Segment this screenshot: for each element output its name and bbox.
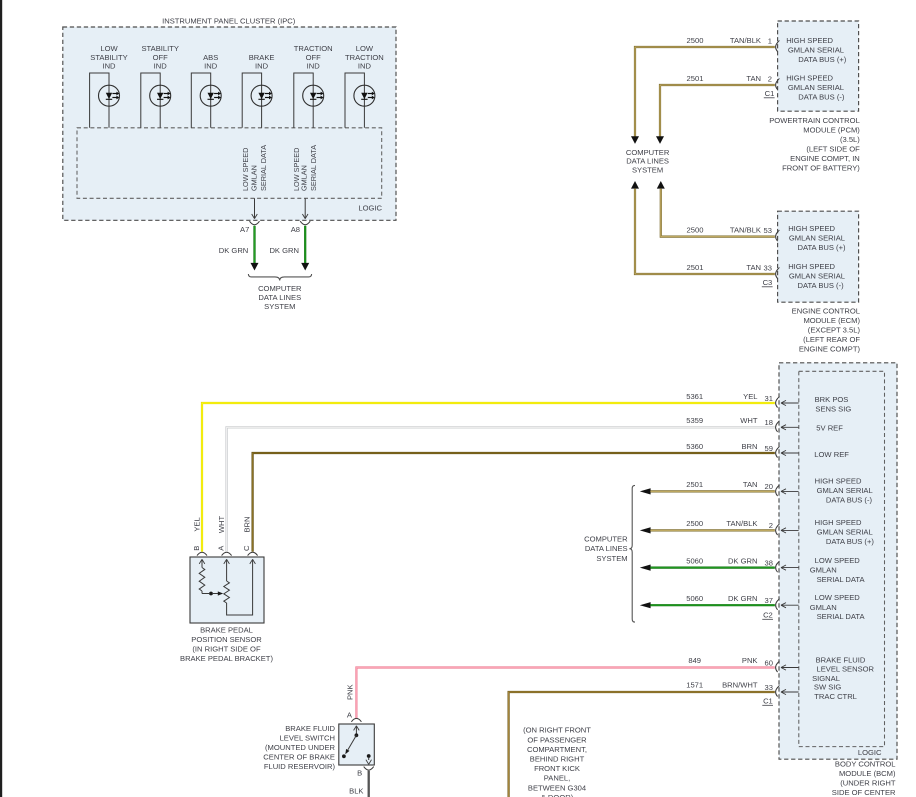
svg-text:COMPUTER: COMPUTER [258, 284, 302, 293]
switch contact from pin A [354, 726, 360, 737]
svg-text:C2: C2 [763, 610, 773, 619]
color label PNK (vertical at switch) [345, 684, 354, 700]
color label BRN (at BCM) [741, 442, 757, 451]
svg-text:IND: IND [358, 61, 372, 70]
wire 2501 TAN: PCM pin 2 to computer data lines [656, 85, 775, 144]
BCM pin 38 label LOW SPEED GMLAN SERIAL DATA [810, 556, 866, 584]
svg-text:5060: 5060 [686, 594, 703, 603]
svg-text:LOW SPEED: LOW SPEED [815, 593, 861, 602]
svg-text:20: 20 [765, 482, 773, 491]
svg-text:DATA LINES: DATA LINES [626, 157, 669, 166]
connector label C3 (ECM) [762, 278, 773, 287]
sensor internal wire pin B with arrow [199, 559, 205, 567]
svg-text:LOGIC: LOGIC [358, 203, 382, 212]
wire 5361 YEL: brake pedal position sensor pin B to BCM pin 31 [202, 403, 775, 552]
module box BCM BODY CONTROL MODULE [779, 363, 897, 759]
svg-text:LEVEL SWITCH: LEVEL SWITCH [280, 733, 335, 742]
svg-text:PNK: PNK [345, 684, 354, 700]
svg-text:CENTER OF BRAKE: CENTER OF BRAKE [263, 753, 335, 762]
sensor label [180, 626, 273, 664]
wire 5359 WHT: brake pedal position sensor pin A to BCM pin 18 [227, 427, 775, 551]
ECM pin 53 label HIGH SPEED GMLAN SERIAL DATA BUS (+) [788, 224, 846, 252]
svg-text:SYSTEM: SYSTEM [632, 166, 663, 175]
circuit number 2500 (PCM) [687, 36, 704, 45]
svg-text:60: 60 [765, 658, 773, 667]
circuit number 5361 [686, 392, 703, 401]
svg-text:TAN/BLK: TAN/BLK [730, 36, 761, 45]
circuit number 2501 (PCM) [687, 74, 704, 83]
svg-text:COMPARTMENT,: COMPARTMENT, [527, 745, 587, 754]
svg-text:DATA BUS (+): DATA BUS (+) [798, 243, 847, 252]
svg-text:YEL: YEL [743, 392, 757, 401]
svg-text:5361: 5361 [686, 392, 703, 401]
wire 2501 TAN: computer data lines to BCM pin 20 [640, 488, 775, 494]
color label WHT (vertical at sensor) [217, 515, 226, 533]
component box BRAKE FLUID LEVEL SWITCH [339, 724, 375, 765]
svg-text:FLUID RESERVOIR): FLUID RESERVOIR) [264, 762, 336, 771]
circuit number 849 [688, 656, 701, 665]
svg-text:POWERTRAIN CONTROL: POWERTRAIN CONTROL [769, 116, 860, 125]
color label DK GRN (A7) [219, 246, 249, 255]
svg-text:37: 37 [765, 596, 773, 605]
module box PCM POWERTRAIN CONTROL MODULE [778, 21, 859, 111]
color label DK GRN (pin 38) [728, 556, 758, 565]
svg-text:5359: 5359 [686, 416, 703, 425]
indicator lamp BRAKE IND [242, 53, 274, 128]
color label TAN/BLK (ECM) [730, 226, 761, 235]
connector label C1 (BCM) [762, 697, 773, 706]
svg-text:2500: 2500 [687, 36, 704, 45]
svg-text:A7: A7 [240, 225, 249, 234]
svg-text:PANEL,: PANEL, [544, 774, 570, 783]
svg-text:GMLAN SERIAL: GMLAN SERIAL [788, 45, 844, 54]
BCM pin 20 label HIGH SPEED GMLAN SERIAL DATA BUS (-) [815, 477, 873, 505]
wire 2500 TAN/BLK: PCM pin 1 to computer data lines [631, 47, 775, 144]
svg-text:(3.5L): (3.5L) [840, 135, 860, 144]
wire IPC logic output to pin A7 [252, 198, 258, 218]
color label DK GRN (pin 37) [728, 594, 758, 603]
sensor internal wire pin A with arrow [224, 559, 230, 581]
color label BRN/WHT [722, 681, 758, 690]
svg-text:BETWEEN G304: BETWEEN G304 [528, 783, 586, 792]
pin 33 (BCM) [765, 683, 799, 697]
wire 5060 DK GRN: computer data lines to BCM pin 37 [640, 602, 775, 608]
svg-text:SYSTEM: SYSTEM [264, 302, 295, 311]
circuit number 5060 (pin 38) [686, 556, 703, 565]
svg-text:SERIAL DATA: SERIAL DATA [817, 575, 866, 584]
switch contact to pin B [366, 754, 372, 764]
wire IPC logic output to pin A8 [302, 198, 308, 218]
svg-text:38: 38 [765, 558, 773, 567]
connector label C2 (BCM) [762, 610, 773, 619]
svg-text:LOGIC: LOGIC [858, 748, 882, 757]
switch label [263, 724, 335, 771]
wire 1571 BRN/WHT: traction control switch to BCM pin 33 [509, 692, 775, 797]
svg-text:2: 2 [768, 74, 772, 83]
svg-text:53: 53 [764, 226, 772, 235]
svg-text:33: 33 [764, 263, 772, 272]
svg-text:TRAC CTRL: TRAC CTRL [814, 692, 857, 701]
svg-text:TAN: TAN [743, 480, 758, 489]
svg-text:HIGH SPEED: HIGH SPEED [786, 36, 833, 45]
module box U1 INSTRUMENT PANEL CLUSTER (IPC) [63, 17, 396, 221]
color label BRN (vertical at sensor) [242, 516, 251, 532]
location note (ground G304 area) [523, 726, 591, 797]
color label DK GRN (A8) [269, 246, 299, 255]
pin 38 (BCM) [765, 558, 799, 572]
svg-text:GMLAN: GMLAN [300, 165, 309, 191]
svg-text:BRN: BRN [741, 442, 757, 451]
pin 59 (BCM) [765, 444, 799, 458]
svg-text:BODY CONTROL: BODY CONTROL [835, 760, 896, 769]
svg-text:DK GRN: DK GRN [219, 246, 249, 255]
svg-text:ENGINE CONTROL: ENGINE CONTROL [792, 307, 860, 316]
circuit number 2500 (ECM) [687, 226, 704, 235]
brace computer data lines system (mid) [629, 485, 635, 622]
pin A (sensor) [217, 545, 232, 556]
circuit number 2500 (BCM) [686, 519, 703, 528]
svg-text:HIGH SPEED: HIGH SPEED [788, 224, 835, 233]
pin 33 (ECM C3) [764, 263, 780, 278]
svg-text:1571: 1571 [686, 681, 703, 690]
svg-text:YEL: YEL [193, 517, 202, 531]
svg-text:(UNDER RIGHT: (UNDER RIGHT [840, 779, 896, 788]
indicator lamp TRACTION OFF IND [294, 44, 333, 128]
svg-text:DATA BUS (-): DATA BUS (-) [798, 92, 845, 101]
svg-text:HIGH SPEED: HIGH SPEED [788, 262, 835, 271]
svg-text:TAN/BLK: TAN/BLK [730, 226, 761, 235]
svg-text:DK GRN: DK GRN [269, 246, 299, 255]
svg-text:2501: 2501 [687, 263, 704, 272]
svg-text:DATA BUS (+): DATA BUS (+) [798, 55, 847, 64]
svg-text:GMLAN SERIAL: GMLAN SERIAL [817, 527, 873, 536]
BCM pin 18 label 5V REF [816, 424, 843, 433]
circuit number 1571 [686, 681, 703, 690]
indicator lamp STABILITY OFF IND [141, 44, 179, 128]
svg-text:5360: 5360 [686, 442, 703, 451]
indicator lamp LOW STABILITY IND [90, 44, 128, 128]
svg-text:TAN: TAN [746, 263, 761, 272]
wire 2500 TAN/BLK: computer data lines to ECM pin 53 [657, 181, 775, 237]
svg-text:C1: C1 [763, 697, 773, 706]
net label LOW SPEED GMLAN SERIAL DATA (A7) [241, 145, 268, 191]
svg-text:IND: IND [204, 61, 218, 70]
svg-text:COMPUTER: COMPUTER [626, 148, 670, 157]
svg-text:BRN: BRN [242, 516, 251, 532]
svg-text:DATA LINES: DATA LINES [258, 293, 301, 302]
svg-text:A8: A8 [291, 225, 300, 234]
connector label C1 (PCM) [764, 89, 775, 98]
color label TAN/BLK (PCM) [730, 36, 761, 45]
wire 5360 BRN: brake pedal position sensor pin C to BCM pin 59 [253, 453, 775, 552]
svg-text:HIGH SPEED: HIGH SPEED [815, 518, 862, 527]
BCM pin 31 label BRK POS SENS SIG [815, 395, 852, 414]
svg-text:SERIAL DATA: SERIAL DATA [817, 612, 866, 621]
svg-text:GMLAN SERIAL: GMLAN SERIAL [788, 83, 844, 92]
svg-text:(LEFT REAR OF: (LEFT REAR OF [803, 335, 860, 344]
indicator lamp LOW TRACTION IND [345, 44, 384, 128]
wire 849 PNK: brake fluid level switch pin A to BCM pin 60 [356, 668, 774, 719]
wire 5060 DK GRN: computer data lines to BCM pin 38 [640, 565, 775, 571]
brace to computer data lines system (below IPC) [248, 274, 311, 281]
pin 20 (BCM) [765, 482, 799, 496]
svg-text:TAN: TAN [746, 74, 761, 83]
svg-text:GMLAN: GMLAN [810, 603, 837, 612]
svg-text:IND: IND [255, 61, 269, 70]
sensor internal wire resistor to pin C [227, 559, 256, 615]
color label TAN (ECM) [746, 263, 761, 272]
svg-text:HIGH SPEED: HIGH SPEED [815, 477, 862, 486]
svg-text:BRAKE PEDAL: BRAKE PEDAL [200, 626, 253, 635]
pin 1 (PCM C1) [768, 36, 780, 51]
svg-text:2500: 2500 [687, 226, 704, 235]
svg-text:DATA BUS (-): DATA BUS (-) [826, 496, 873, 505]
svg-text:BRAKE FLUID: BRAKE FLUID [285, 724, 335, 733]
resistor element (pin A side, potentiometer track) [224, 581, 230, 603]
svg-text:DATA BUS (+): DATA BUS (+) [826, 537, 875, 546]
pin 60 (BCM) [765, 658, 799, 672]
BCM pin 33 label SW SIG TRAC CTRL [814, 683, 857, 701]
pin 2 (BCM) [769, 521, 799, 535]
PCM module label [769, 116, 860, 173]
wire BLK: switch pin B to ground G304 [368, 771, 370, 797]
BCM pin 60 label BRAKE FLUID LEVEL SENSOR SIGNAL [812, 655, 874, 683]
circuit number 2501 (ECM) [687, 263, 704, 272]
IPC LOGIC box [77, 128, 383, 213]
svg-text:GMLAN SERIAL: GMLAN SERIAL [789, 271, 845, 280]
net label LOW SPEED GMLAN SERIAL DATA (A8) [292, 145, 318, 191]
svg-text:SERIAL DATA: SERIAL DATA [259, 145, 268, 191]
svg-text:DATA BUS (-): DATA BUS (-) [798, 281, 845, 290]
svg-text:INSTRUMENT PANEL CLUSTER (IPC): INSTRUMENT PANEL CLUSTER (IPC) [162, 17, 296, 26]
pin A (switch) [347, 711, 362, 722]
svg-text:(EXCEPT 3.5L): (EXCEPT 3.5L) [808, 326, 861, 335]
circuit number 5359 [686, 416, 703, 425]
svg-text:WHT: WHT [740, 416, 758, 425]
svg-text:GMLAN: GMLAN [810, 566, 837, 575]
pin A8 (IPC) [291, 221, 310, 234]
pin A7 (IPC) [240, 221, 259, 234]
svg-text:DATA LINES: DATA LINES [585, 544, 628, 553]
wiper junction dot [202, 592, 213, 596]
svg-text:ENGINE COMPT): ENGINE COMPT) [799, 345, 861, 354]
pin C (sensor) [242, 545, 258, 556]
svg-text:C1: C1 [765, 89, 775, 98]
switch blade (normally open) [342, 735, 356, 758]
svg-text:LOW REF: LOW REF [814, 450, 849, 459]
circuit number 5360 [686, 442, 703, 451]
BCM module label [832, 760, 896, 797]
svg-text:BRAKE PEDAL BRACKET): BRAKE PEDAL BRACKET) [180, 654, 273, 663]
svg-text:(MOUNTED UNDER: (MOUNTED UNDER [265, 743, 336, 752]
svg-text:MODULE (ECM): MODULE (ECM) [803, 316, 860, 325]
wire DK GRN from pin A7 to computer data lines [251, 226, 259, 271]
svg-text:LEVEL SENSOR: LEVEL SENSOR [817, 665, 875, 674]
svg-text:GMLAN SERIAL: GMLAN SERIAL [789, 234, 845, 243]
svg-text:DK GRN: DK GRN [728, 556, 758, 565]
svg-text:5V REF: 5V REF [816, 424, 843, 433]
node COMPUTER DATA LINES SYSTEM (top) [626, 148, 670, 175]
svg-text:IND: IND [154, 61, 168, 70]
svg-text:2500: 2500 [686, 519, 703, 528]
pin 37 (BCM) [765, 596, 799, 610]
circuit number 2501 (BCM) [686, 480, 703, 489]
svg-text:SYSTEM: SYSTEM [596, 554, 627, 563]
svg-text:COMPUTER: COMPUTER [584, 535, 628, 544]
PCM pin 1 label HIGH SPEED GMLAN SERIAL DATA BUS (+) [786, 36, 847, 64]
wiper arrow [213, 591, 223, 595]
svg-text:LOW SPEED: LOW SPEED [815, 556, 861, 565]
circuit number 5060 (pin 37) [686, 594, 703, 603]
svg-text:ENGINE COMPT, IN: ENGINE COMPT, IN [790, 154, 860, 163]
pin 2 (PCM C1) [768, 74, 780, 89]
svg-text:33: 33 [765, 683, 773, 692]
wire 2501 TAN: computer data lines to ECM pin 33 [631, 181, 775, 274]
svg-text:GMLAN SERIAL: GMLAN SERIAL [817, 486, 873, 495]
node COMPUTER DATA LINES SYSTEM (mid) [584, 535, 628, 563]
color label BLK [349, 786, 363, 795]
resistor element (pin B side) [199, 568, 205, 594]
svg-text:31: 31 [765, 394, 773, 403]
BCM pin 59 label LOW REF [814, 450, 849, 459]
pin 53 (ECM C3) [764, 226, 780, 241]
color label YEL (vertical at sensor) [193, 517, 202, 531]
svg-text:2501: 2501 [686, 480, 703, 489]
svg-text:GMLAN: GMLAN [249, 165, 258, 191]
color label YEL (at BCM) [743, 392, 757, 401]
svg-text:(ON RIGHT FRONT: (ON RIGHT FRONT [523, 726, 591, 735]
svg-text:59: 59 [765, 444, 773, 453]
svg-text:& DOOR): & DOOR) [541, 793, 574, 797]
svg-text:FRONT OF BATTERY): FRONT OF BATTERY) [782, 163, 860, 172]
svg-text:(IN RIGHT SIDE OF: (IN RIGHT SIDE OF [192, 645, 261, 654]
svg-text:SERIAL DATA: SERIAL DATA [309, 145, 318, 191]
pin B (switch) [357, 767, 374, 778]
pin 31 (BCM) [765, 394, 799, 408]
svg-text:FRONT KICK: FRONT KICK [534, 764, 580, 773]
svg-text:849: 849 [688, 656, 701, 665]
svg-text:2: 2 [769, 521, 773, 530]
svg-text:OF PASSENGER: OF PASSENGER [527, 735, 587, 744]
svg-text:1: 1 [768, 36, 772, 45]
svg-text:SIDE OF CENTER: SIDE OF CENTER [832, 788, 896, 797]
svg-text:BEHIND RIGHT: BEHIND RIGHT [530, 755, 585, 764]
pin 18 (BCM) [765, 418, 799, 432]
svg-text:SW SIG: SW SIG [814, 683, 842, 692]
node COMPUTER DATA LINES SYSTEM (below IPC) [258, 284, 302, 311]
svg-text:POSITION SENSOR: POSITION SENSOR [191, 635, 262, 644]
BCM pin 37 label LOW SPEED GMLAN SERIAL DATA [810, 593, 866, 621]
svg-text:MODULE (PCM): MODULE (PCM) [803, 125, 860, 134]
svg-text:WHT: WHT [217, 515, 226, 533]
ECM pin 33 label HIGH SPEED GMLAN SERIAL DATA BUS (-) [788, 262, 845, 290]
ECM module label [792, 307, 861, 354]
BCM pin 2 label HIGH SPEED GMLAN SERIAL DATA BUS (+) [815, 518, 875, 546]
svg-text:TAN/BLK: TAN/BLK [726, 519, 757, 528]
svg-text:DK GRN: DK GRN [728, 594, 758, 603]
color label TAN (PCM) [746, 74, 761, 83]
color label WHT (at BCM) [740, 416, 758, 425]
svg-text:BLK: BLK [349, 786, 363, 795]
wire DK GRN from pin A8 to computer data lines [301, 226, 309, 271]
module box ECM ENGINE CONTROL MODULE [778, 211, 859, 302]
indicator lamp ABS IND [191, 53, 221, 128]
PCM pin 2 label HIGH SPEED GMLAN SERIAL DATA BUS (-) [786, 73, 845, 101]
svg-text:BRAKE FLUID: BRAKE FLUID [816, 655, 866, 664]
svg-text:(LEFT SIDE OF: (LEFT SIDE OF [806, 144, 860, 153]
svg-text:C: C [242, 545, 251, 551]
svg-text:5060: 5060 [686, 556, 703, 565]
svg-text:BRK POS: BRK POS [815, 395, 849, 404]
svg-text:IND: IND [307, 61, 321, 70]
BCM LOGIC box [799, 371, 885, 757]
page left border line [0, 0, 2, 797]
svg-text:B: B [192, 546, 201, 551]
svg-text:18: 18 [765, 418, 773, 427]
wire 2500 TAN/BLK: computer data lines to BCM pin 2 [640, 527, 775, 533]
color label TAN/BLK (BCM) [726, 519, 757, 528]
svg-text:SENS SIG: SENS SIG [815, 404, 851, 413]
color label TAN (BCM) [743, 480, 758, 489]
component box BRAKE PEDAL POSITION SENSOR [190, 557, 264, 623]
svg-text:HIGH SPEED: HIGH SPEED [786, 73, 833, 82]
svg-text:PNK: PNK [742, 656, 758, 665]
svg-text:IND: IND [102, 61, 116, 70]
color label PNK (at BCM) [742, 656, 758, 665]
svg-text:C3: C3 [763, 278, 773, 287]
pin B (sensor) [192, 546, 207, 556]
svg-text:MODULE (BCM): MODULE (BCM) [839, 769, 896, 778]
svg-text:BRN/WHT: BRN/WHT [722, 681, 758, 690]
svg-text:2501: 2501 [687, 74, 704, 83]
svg-text:B: B [357, 768, 362, 777]
